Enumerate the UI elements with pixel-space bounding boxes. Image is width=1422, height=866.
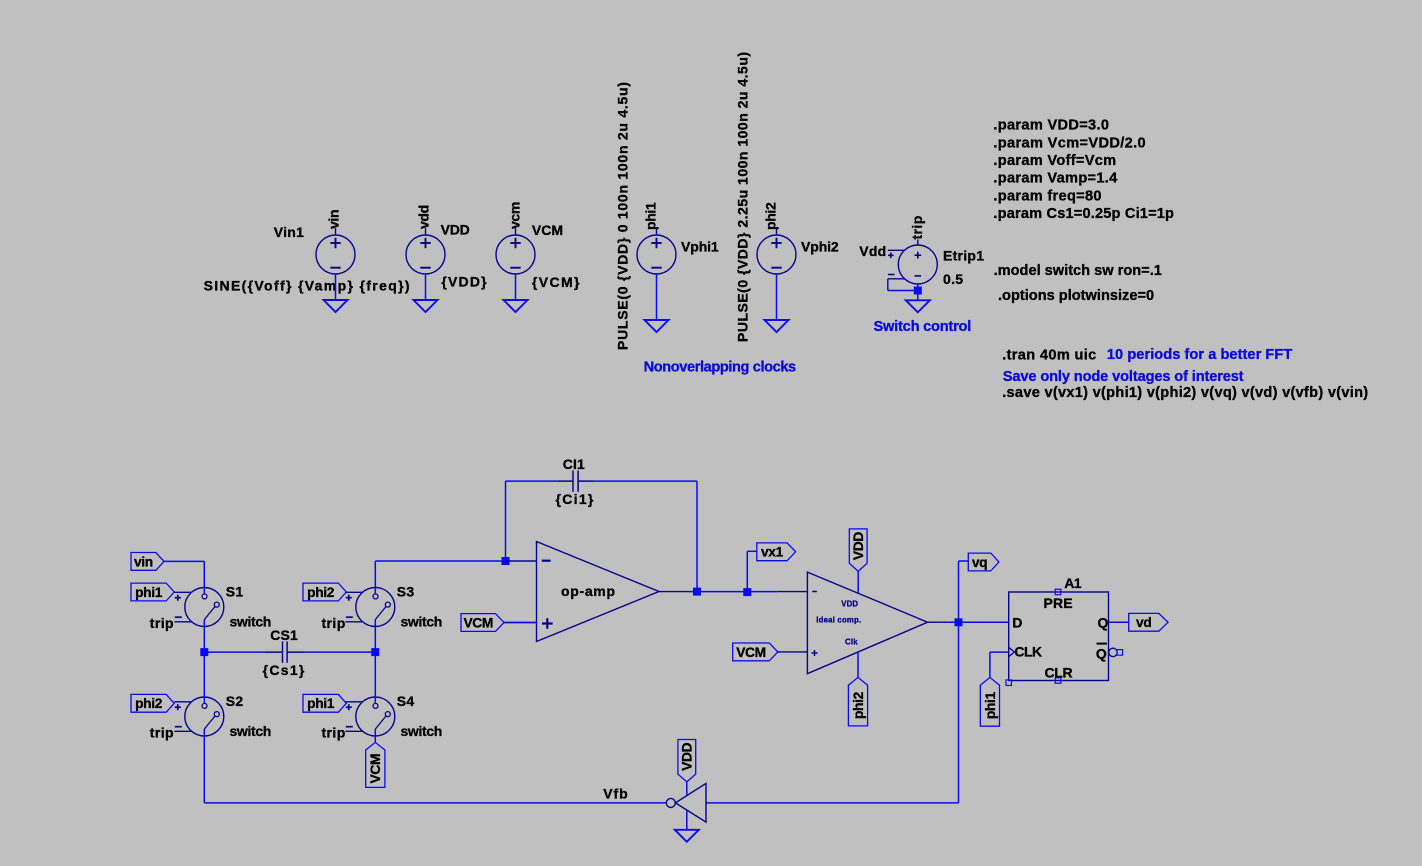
svg-text:vin: vin xyxy=(325,210,341,229)
junction vx1 tap xyxy=(743,588,751,596)
net flag VCM at op-amp + xyxy=(461,614,504,632)
svg-text:Vin1: Vin1 xyxy=(274,224,305,240)
ground under Vin1 xyxy=(324,300,348,312)
svg-text:Q: Q xyxy=(1096,646,1107,662)
wire inverter input from vq rail xyxy=(706,802,959,804)
wire vx1 stem vertical xyxy=(746,551,748,592)
svg-text:trip: trip xyxy=(150,724,174,740)
net flag phi1 at S4 xyxy=(303,694,346,712)
svg-text:Vdd: Vdd xyxy=(859,243,886,259)
wire feedback rail bottom xyxy=(204,802,666,804)
svg-text:{Ci1}: {Ci1} xyxy=(556,491,595,507)
op-amp output pin lead xyxy=(659,591,689,593)
wire Vphi2 to ground xyxy=(776,274,778,320)
svg-text:VDD: VDD xyxy=(441,222,470,238)
wire vq rail vertical xyxy=(958,561,960,803)
wire CI1 top left xyxy=(506,480,558,482)
wire CS1 right to junction xyxy=(305,651,375,653)
wire inverter bottom to ground xyxy=(686,810,688,830)
comparator noninverting input marker xyxy=(812,652,818,654)
unconnected pin marker CLR xyxy=(1055,678,1061,684)
net flag vin xyxy=(131,553,164,571)
svg-text:Save only node voltages of int: Save only node voltages of interest xyxy=(1003,369,1244,385)
switch S1 xyxy=(174,588,224,627)
comparator output pin lead xyxy=(928,621,948,623)
svg-text:VDD: VDD xyxy=(680,742,695,770)
voltage source Vcm source xyxy=(496,228,535,274)
svg-text:phi1: phi1 xyxy=(135,585,163,600)
junction S1/S2/CS1 node xyxy=(200,648,208,656)
wire vdd to ground xyxy=(425,274,427,300)
voltage source Vphi1 xyxy=(637,228,676,274)
wire CI1 right vertical xyxy=(696,481,698,591)
svg-text:VDD: VDD xyxy=(841,599,858,608)
voltage source Vphi2 xyxy=(757,228,796,274)
ground under Vphi1 xyxy=(645,320,669,332)
switch S4 xyxy=(345,697,395,736)
ground under Vphi2 xyxy=(765,320,789,332)
svg-text:S4: S4 xyxy=(397,693,415,709)
wire op-amp output to comparator xyxy=(689,591,778,593)
ground under vcm xyxy=(504,300,528,312)
op-amp noninverting input pin lead xyxy=(505,622,537,624)
wire Vphi1 to ground xyxy=(656,274,658,320)
svg-text:0.5: 0.5 xyxy=(943,271,963,287)
svg-text:CLK: CLK xyxy=(1014,644,1042,660)
svg-text:S3: S3 xyxy=(397,584,415,600)
junction S3/S4/CS1 node xyxy=(371,648,379,656)
unconnected pin marker Qbar xyxy=(1117,650,1123,656)
behavioral source Etrip1 xyxy=(888,240,938,285)
wire VDD flag to comparator top xyxy=(857,571,859,593)
flip-flop CLK wedge xyxy=(1009,647,1015,656)
wire vx1 stem horizontal xyxy=(747,550,757,552)
svg-text:PULSE(0 {VDD} 2.25u 100n 100n: PULSE(0 {VDD} 2.25u 100n 100n 2u 4.5u) xyxy=(734,51,750,342)
flip-flop Qbar bubble xyxy=(1109,648,1117,656)
ground under inverter xyxy=(675,830,699,842)
svg-text:phi2: phi2 xyxy=(135,696,163,711)
inverter output bubble xyxy=(666,798,675,807)
net flag phi1 at flip-flop CLK xyxy=(980,677,999,726)
svg-text:{VCM}: {VCM} xyxy=(532,274,581,290)
wire junction to CS1 left xyxy=(204,651,265,653)
svg-text:vin: vin xyxy=(134,554,153,569)
junction op-amp output / CI1 xyxy=(693,588,701,596)
unconnected pin marker bottom-left xyxy=(1006,680,1012,686)
inverter U3 body xyxy=(675,783,706,822)
net flag VCM under S4 xyxy=(366,742,385,787)
svg-text:.param Vamp=1.4: .param Vamp=1.4 xyxy=(993,171,1118,187)
svg-text:phi1: phi1 xyxy=(983,692,998,720)
flip-flop Qbar overline xyxy=(1097,643,1107,645)
net flag VCM at comparator + xyxy=(733,643,778,661)
svg-text:VCM: VCM xyxy=(736,645,766,660)
svg-text:.param VDD=3.0: .param VDD=3.0 xyxy=(993,118,1109,134)
net flag phi2 under comparator xyxy=(848,677,867,726)
svg-text:{Cs1}: {Cs1} xyxy=(263,662,306,678)
net flag VDD above comparator xyxy=(849,529,867,572)
svg-text:A1: A1 xyxy=(1064,575,1082,591)
wire VCM flag to op-amp + xyxy=(504,622,537,624)
svg-text:phi1: phi1 xyxy=(307,696,335,711)
net flag phi2 at S3 xyxy=(303,583,346,601)
svg-text:CS1: CS1 xyxy=(270,627,298,643)
svg-text:.param Voff=Vcm: .param Voff=Vcm xyxy=(993,153,1116,169)
comparator inverting input pin lead xyxy=(778,591,808,593)
voltage source Vin1 xyxy=(316,228,355,274)
svg-text:10 periods for a better FFT: 10 periods for a better FFT xyxy=(1107,347,1292,363)
svg-text:CI1: CI1 xyxy=(563,456,585,472)
wire Vin1 to ground xyxy=(335,274,337,300)
svg-text:VCM: VCM xyxy=(463,615,493,630)
svg-text:Ideal comp.: Ideal comp. xyxy=(816,615,861,624)
junction comparator output / vq / D xyxy=(955,618,963,626)
wire CI1 left vertical xyxy=(505,481,507,561)
svg-text:PULSE(0 {VDD} 0 100n 100n 2u 4: PULSE(0 {VDD} 0 100n 100n 2u 4.5u) xyxy=(614,81,630,350)
wire comparator clk to phi2 flag xyxy=(857,652,859,677)
wire Q output to vd flag xyxy=(1109,621,1129,623)
svg-text:.model switch sw ron=.1: .model switch sw ron=.1 xyxy=(994,263,1162,279)
svg-text:.tran 40m uic: .tran 40m uic xyxy=(1002,348,1096,364)
svg-text:.param Cs1=0.25p Ci1=1p: .param Cs1=0.25p Ci1=1p xyxy=(993,206,1174,222)
svg-text:phi2: phi2 xyxy=(851,691,866,719)
wire Etrip1 bottom to ground xyxy=(917,284,919,300)
svg-text:.param Vcm=VDD/2.0: .param Vcm=VDD/2.0 xyxy=(993,136,1146,152)
svg-text:Vfb: Vfb xyxy=(603,785,628,801)
net flag VDD above inverter xyxy=(678,740,696,782)
capacitor CS1 xyxy=(265,641,305,662)
svg-text:op-amp: op-amp xyxy=(561,583,616,599)
svg-text:Clk: Clk xyxy=(845,637,858,646)
svg-text:SINE({Voff} {Vamp} {freq}): SINE({Voff} {Vamp} {freq}) xyxy=(204,277,411,293)
net flag vd xyxy=(1129,613,1168,631)
wire junction down to S4 top xyxy=(374,652,376,703)
wire junction down to S2 top xyxy=(203,652,205,703)
wire S2 bottom to feedback rail xyxy=(203,729,205,803)
wire comparator output to flip-flop D xyxy=(948,621,1009,623)
svg-text:trip: trip xyxy=(150,615,174,631)
svg-text:.options plotwinsize=0: .options plotwinsize=0 xyxy=(998,288,1154,304)
ground under vdd xyxy=(414,300,438,312)
wire VDD flag to inverter top xyxy=(686,782,688,796)
svg-text:vcm: vcm xyxy=(506,202,522,229)
switch S3 xyxy=(345,588,395,627)
svg-text:PRE: PRE xyxy=(1044,595,1073,611)
wire junction up into S3 bottom xyxy=(374,620,376,653)
svg-text:switch: switch xyxy=(401,723,442,739)
svg-text:S2: S2 xyxy=(226,693,244,709)
comparator U2 body xyxy=(807,572,927,674)
wire vq stub xyxy=(959,560,969,562)
wire VCM flag to comparator + xyxy=(778,651,780,653)
svg-text:switch: switch xyxy=(230,723,271,739)
op-amp inverting input marker xyxy=(542,560,551,562)
svg-text:trip: trip xyxy=(322,615,346,631)
svg-text:vq: vq xyxy=(972,555,987,570)
op-amp noninverting input marker xyxy=(542,622,553,624)
svg-text:D: D xyxy=(1012,615,1022,631)
wire phi1 flag to CLK horizontal xyxy=(990,651,1009,653)
svg-text:{VDD}: {VDD} xyxy=(441,273,487,289)
junction Etrip1 bottom node xyxy=(914,287,922,295)
svg-text:vx1: vx1 xyxy=(761,545,784,560)
wire S3 top up xyxy=(374,561,376,594)
flip-flop A1 body xyxy=(1009,592,1109,681)
svg-text:Vphi2: Vphi2 xyxy=(801,238,839,254)
net flag vq xyxy=(968,553,999,571)
svg-text:VCM: VCM xyxy=(368,754,383,784)
op-amp U1 body xyxy=(537,542,660,642)
svg-text:Nonoverlapping clocks: Nonoverlapping clocks xyxy=(644,360,796,376)
net flag phi2 at S2 xyxy=(131,694,174,712)
wire S4 bottom to VCM flag xyxy=(374,729,376,742)
svg-text:switch: switch xyxy=(401,614,442,630)
voltage source Vdd source xyxy=(406,228,445,274)
net flag phi1 at S1 xyxy=(131,583,174,601)
wire down into S1 top xyxy=(203,561,205,594)
svg-text:.save v(vx1) v(phi1) v(phi2) v: .save v(vx1) v(phi1) v(phi2) v(vq) v(vd)… xyxy=(1002,385,1368,401)
svg-text:Q: Q xyxy=(1098,615,1109,631)
comparator noninverting input pin lead xyxy=(778,651,808,653)
wire S1 bottom to junction xyxy=(203,620,205,653)
op-amp inverting input pin lead xyxy=(506,560,537,562)
svg-text:trip: trip xyxy=(909,215,925,239)
capacitor CI1 xyxy=(558,470,594,491)
svg-text:vdd: vdd xyxy=(415,205,431,229)
unconnected pin marker PRE xyxy=(1055,589,1061,595)
svg-text:trip: trip xyxy=(322,724,346,740)
wire S3 top to op-amp input junction xyxy=(375,560,505,562)
svg-text:S1: S1 xyxy=(226,584,244,600)
wire CI1 top right xyxy=(594,480,698,482)
svg-text:Vphi1: Vphi1 xyxy=(681,238,719,254)
wire Etrip1 minus control to bottom node xyxy=(888,290,918,292)
switch S2 xyxy=(174,697,224,736)
svg-text:Switch control: Switch control xyxy=(874,319,972,335)
svg-text:Etrip1: Etrip1 xyxy=(943,247,984,263)
junction op-amp inverting input xyxy=(502,557,510,565)
svg-text:phi2: phi2 xyxy=(763,202,779,230)
net flag vx1 xyxy=(757,543,796,561)
svg-text:phi2: phi2 xyxy=(307,585,335,600)
svg-text:.param freq=80: .param freq=80 xyxy=(993,188,1101,204)
svg-text:switch: switch xyxy=(230,614,271,630)
wire phi1 flag to CLK vertical xyxy=(989,652,991,677)
svg-text:phi1: phi1 xyxy=(643,202,659,230)
comparator inverting input marker xyxy=(812,591,817,593)
svg-text:VCM: VCM xyxy=(532,222,563,238)
svg-text:vd: vd xyxy=(1136,615,1151,630)
wire Etrip1 minus control down xyxy=(887,279,889,291)
ground under Etrip1 xyxy=(906,300,930,312)
wire vin flag to corner xyxy=(164,560,204,562)
svg-text:VDD: VDD xyxy=(851,532,866,560)
wire vcm to ground xyxy=(515,274,517,300)
